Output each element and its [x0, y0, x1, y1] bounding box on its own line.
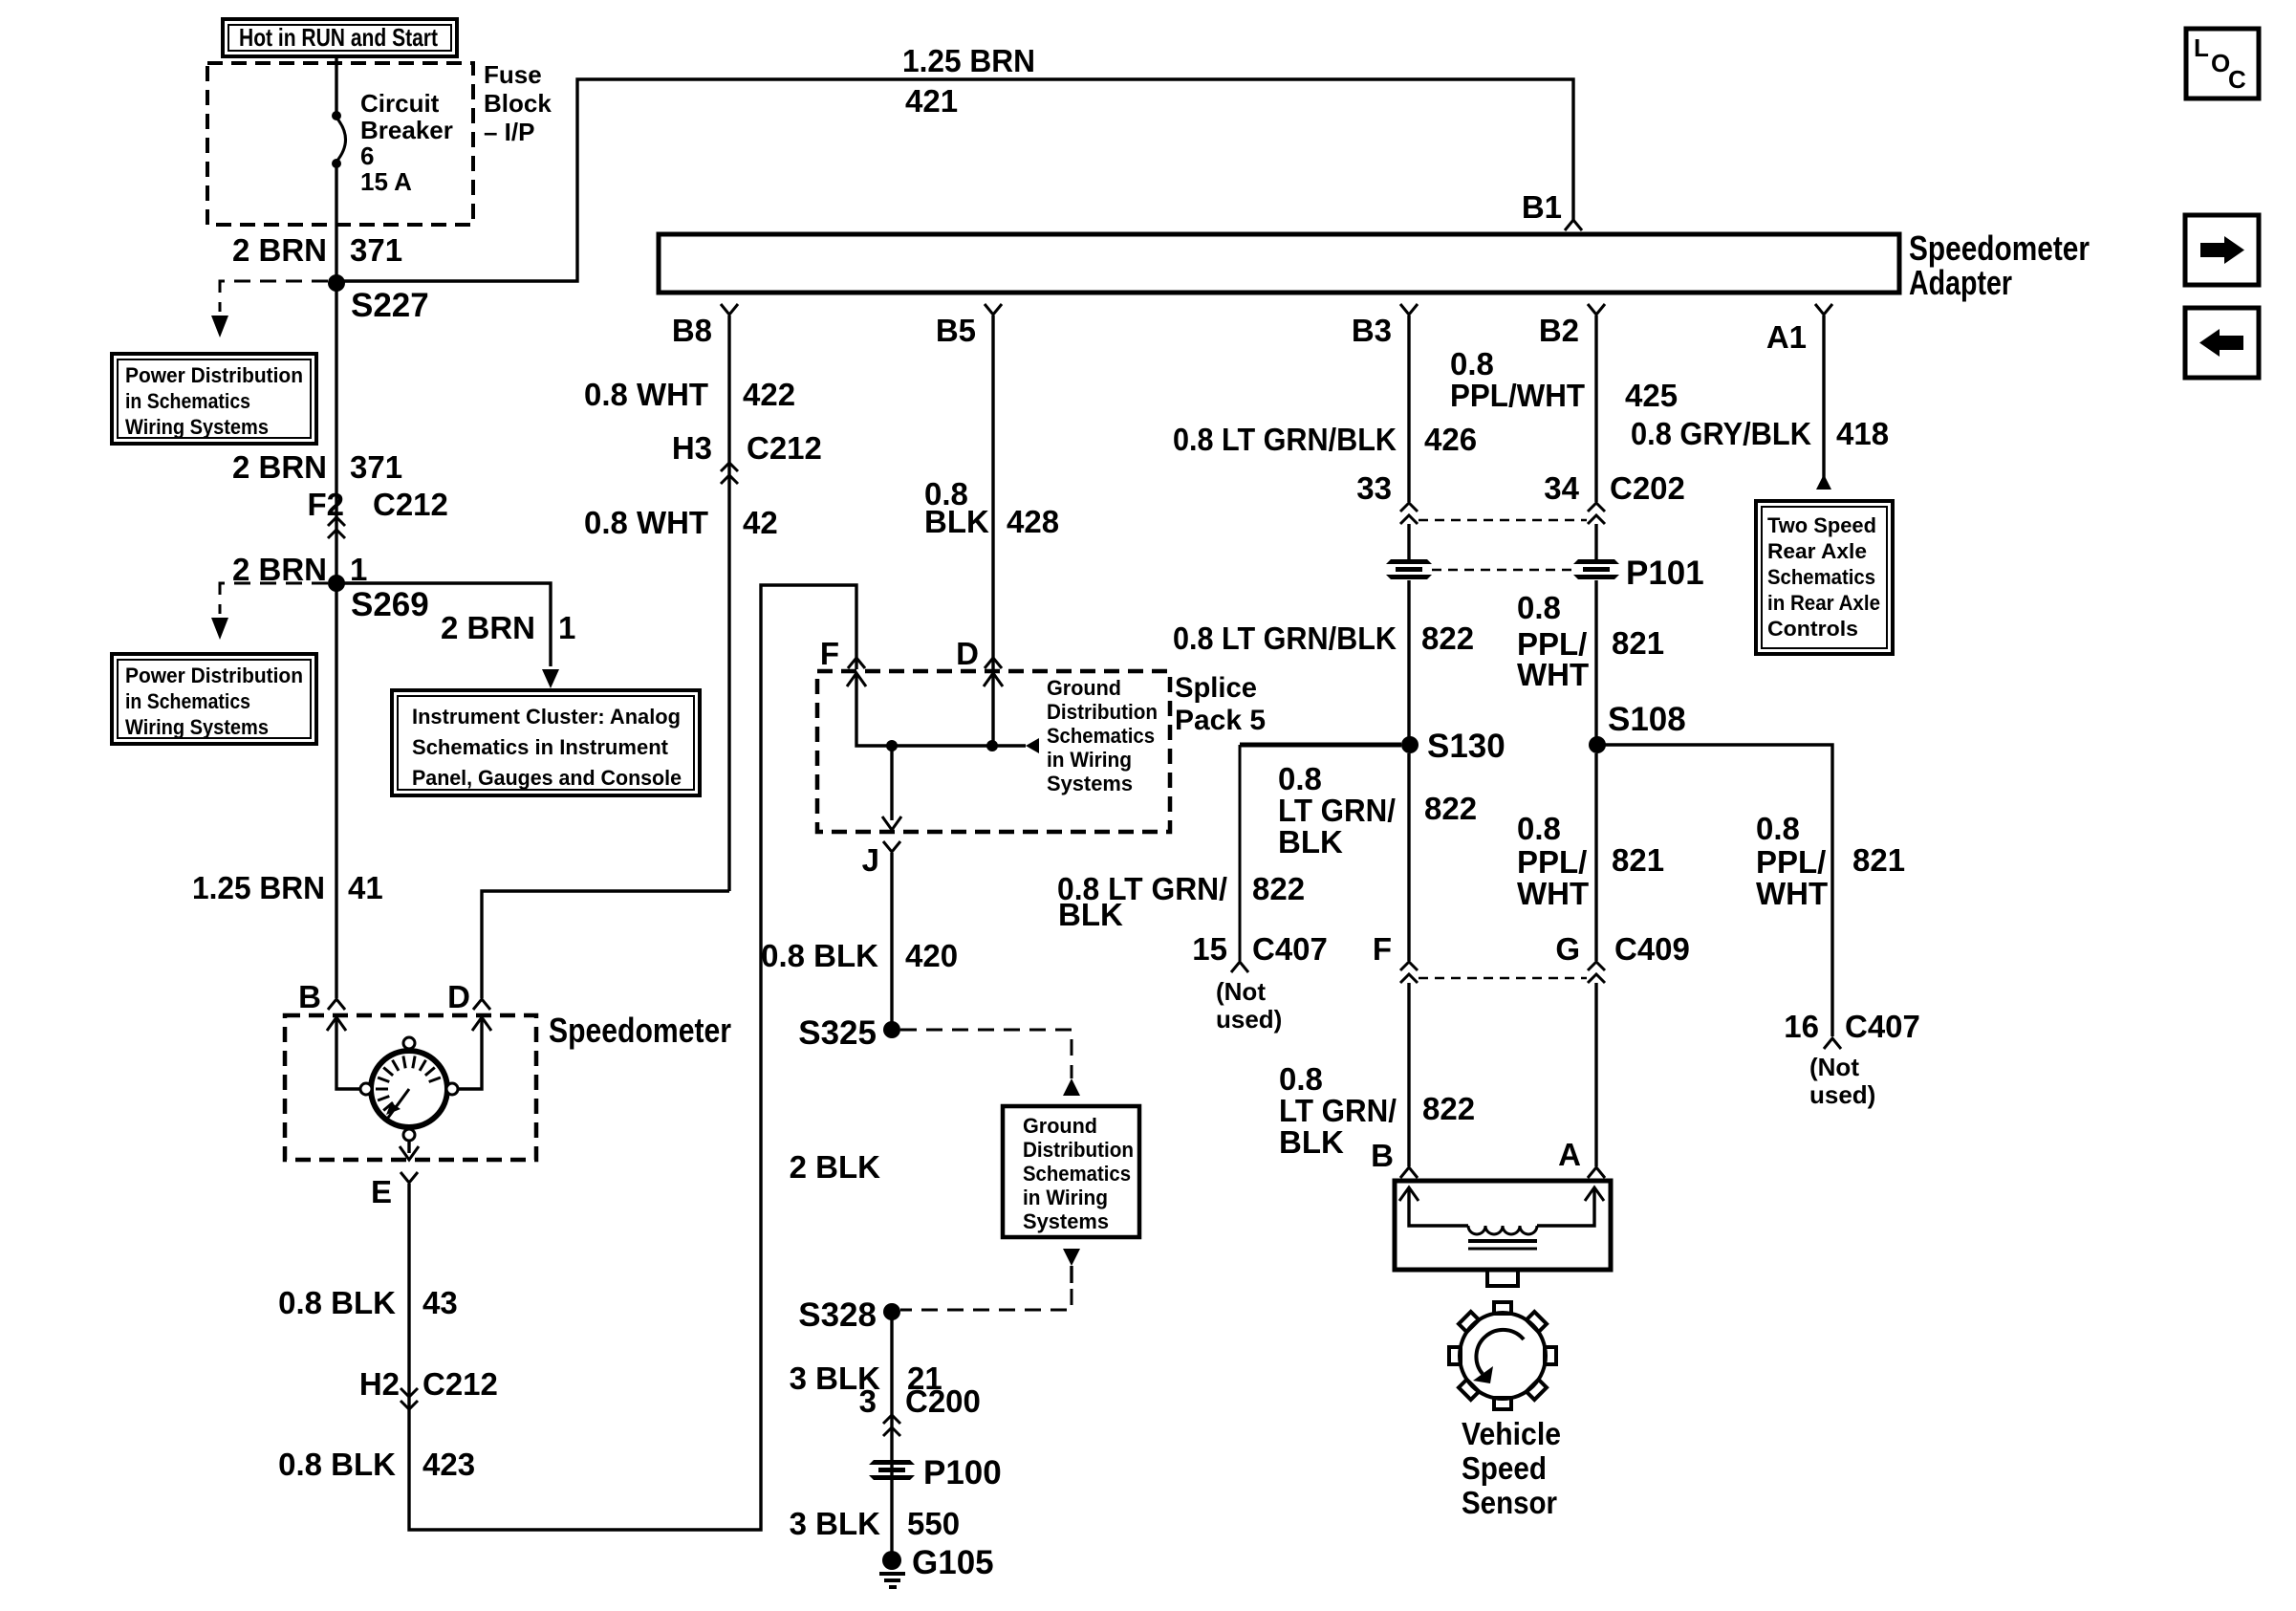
- svg-text:WHT: WHT: [1517, 657, 1589, 692]
- wire dashed C202 bridge: [1419, 519, 1587, 522]
- svg-text:D: D: [956, 636, 979, 671]
- wire dashed S227 to power distribution reference: [220, 281, 328, 312]
- svg-text:S227: S227: [351, 287, 429, 324]
- svg-text:3 BLK: 3 BLK: [790, 1506, 881, 1541]
- wire speedometer internal D: [472, 1017, 491, 1031]
- svg-text:428: 428: [1007, 504, 1059, 539]
- wire C202 to P101 right: [1594, 524, 1597, 560]
- svg-text:Sensor: Sensor: [1462, 1485, 1557, 1520]
- VSS mounting tab: [1487, 1270, 1518, 1286]
- svg-text:C407: C407: [1252, 931, 1328, 967]
- svg-text:– I/P: – I/P: [484, 118, 534, 146]
- svg-text:A: A: [1558, 1137, 1581, 1172]
- svg-text:15: 15: [1192, 931, 1227, 967]
- svg-text:822: 822: [1422, 1091, 1475, 1126]
- svg-text:821: 821: [1612, 625, 1664, 661]
- svg-text:B3: B3: [1352, 313, 1392, 348]
- svg-text:Power Distribution: Power Distribution: [125, 363, 303, 387]
- svg-text:Rear Axle: Rear Axle: [1767, 539, 1867, 563]
- svg-text:371: 371: [350, 232, 402, 268]
- svg-text:C202: C202: [1610, 470, 1685, 506]
- wire dashed ground distribution to S328: [1063, 1249, 1080, 1266]
- node Two Speed Rear Axle reference box: [1756, 501, 1893, 654]
- svg-text:0.8: 0.8: [1279, 1061, 1323, 1097]
- wire P101 to S130: [1407, 580, 1410, 746]
- wire J ground 420: [890, 853, 893, 1030]
- node B terminal speedometer: [328, 999, 345, 1010]
- wire hot feed into circuit breaker: [335, 56, 337, 115]
- node Ground Distribution reference box 2: [1003, 1106, 1139, 1237]
- svg-text:3: 3: [859, 1383, 877, 1419]
- wire splice to ground distribution reference arrow: [992, 744, 1026, 747]
- svg-text:0.8 GRY/BLK: 0.8 GRY/BLK: [1631, 416, 1811, 451]
- svg-text:B8: B8: [672, 313, 712, 348]
- svg-text:WHT: WHT: [1756, 876, 1828, 911]
- svg-text:Controls: Controls: [1767, 617, 1858, 641]
- svg-text:D: D: [447, 979, 470, 1014]
- svg-text:LT GRN/: LT GRN/: [1279, 1093, 1397, 1128]
- splice S328: [883, 1303, 900, 1320]
- svg-text:PPL/: PPL/: [1517, 844, 1587, 880]
- svg-text:0.8 WHT: 0.8 WHT: [584, 505, 708, 540]
- svg-text:S328: S328: [798, 1296, 877, 1334]
- coil core lines: [1468, 1239, 1537, 1243]
- fuse block dashed box: [207, 63, 473, 225]
- svg-text:0.8 LT GRN/BLK: 0.8 LT GRN/BLK: [1173, 620, 1397, 656]
- svg-text:L: L: [2194, 33, 2209, 62]
- inline connector P101 right: [1573, 559, 1619, 564]
- svg-text:Adapter: Adapter: [1909, 263, 2012, 302]
- svg-text:822: 822: [1424, 791, 1477, 826]
- svg-text:in Rear Axle: in Rear Axle: [1767, 591, 1880, 615]
- svg-text:E: E: [371, 1174, 392, 1209]
- svg-text:Ground: Ground: [1047, 676, 1121, 700]
- svg-text:Speed: Speed: [1462, 1450, 1547, 1486]
- wire S108 branch to 16 C407: [1597, 745, 1832, 1036]
- svg-text:in Schematics: in Schematics: [125, 389, 250, 413]
- svg-text:Fuse: Fuse: [484, 60, 542, 89]
- svg-text:Speedometer: Speedometer: [549, 1011, 731, 1050]
- svg-text:Systems: Systems: [1023, 1209, 1109, 1233]
- svg-text:B5: B5: [936, 313, 976, 348]
- node Power Distribution reference box 1: [112, 354, 316, 444]
- svg-text:BLK: BLK: [924, 504, 989, 539]
- svg-text:LT GRN/: LT GRN/: [1278, 793, 1396, 828]
- node D terminal splice pack: [985, 658, 1002, 668]
- svg-text:1.25 BRN: 1.25 BRN: [902, 43, 1035, 78]
- svg-text:426: 426: [1424, 422, 1477, 457]
- splice S325: [883, 1021, 900, 1038]
- svg-text:Power Distribution: Power Distribution: [125, 664, 303, 687]
- svg-text:S108: S108: [1608, 701, 1686, 738]
- splice S269: [328, 575, 345, 592]
- svg-text:423: 423: [422, 1447, 475, 1482]
- wire S108 to G: [1594, 753, 1597, 961]
- node Instrument Cluster reference box: [392, 690, 700, 795]
- wire S269 to speedometer B: [335, 583, 337, 998]
- svg-text:H3: H3: [672, 430, 712, 466]
- svg-text:822: 822: [1252, 871, 1305, 906]
- svg-text:0.8: 0.8: [1278, 761, 1322, 796]
- svg-text:(Not: (Not: [1809, 1053, 1859, 1081]
- gauge needle: [388, 1089, 409, 1118]
- svg-text:Ground: Ground: [1023, 1114, 1097, 1138]
- component Speedometer dashed box: [285, 1015, 536, 1160]
- wire G to VSS A: [1594, 983, 1597, 1166]
- svg-text:Hot in RUN and Start: Hot in RUN and Start: [239, 23, 438, 52]
- reference arrow into two speed box: [1816, 474, 1831, 490]
- svg-text:C212: C212: [373, 487, 448, 522]
- component Speedometer Adapter box: [659, 234, 1899, 293]
- svg-text:Instrument Cluster: Analog: Instrument Cluster: Analog: [412, 705, 681, 729]
- svg-text:Circuit: Circuit: [360, 89, 440, 118]
- node J terminal splice pack: [883, 841, 900, 852]
- svg-text:0.8 BLK: 0.8 BLK: [278, 1447, 396, 1482]
- wire dashed C409 bridge: [1419, 977, 1587, 980]
- wire dashed S269 to power distribution reference: [220, 583, 328, 614]
- svg-text:2 BLK: 2 BLK: [790, 1149, 881, 1185]
- svg-text:P101: P101: [1626, 555, 1704, 592]
- svg-text:0.8: 0.8: [1450, 346, 1494, 381]
- svg-text:in Wiring: in Wiring: [1047, 748, 1132, 772]
- wire B3 VSS signal 426: [1407, 316, 1410, 502]
- svg-text:PPL/: PPL/: [1756, 844, 1826, 880]
- wire S130 branch to 15 C407: [1240, 743, 1401, 748]
- svg-text:6: 6: [360, 142, 374, 170]
- wire B5 ground 428: [991, 316, 994, 669]
- wire speedometer internal E: [407, 1141, 410, 1153]
- svg-text:J: J: [862, 842, 879, 878]
- splice S108: [1589, 736, 1606, 753]
- junction splice dot left: [886, 740, 898, 751]
- svg-text:0.8: 0.8: [1756, 811, 1800, 846]
- svg-text:Speedometer: Speedometer: [1909, 229, 2090, 268]
- svg-text:BLK: BLK: [1279, 1124, 1344, 1160]
- svg-text:BLK: BLK: [1058, 897, 1123, 932]
- svg-text:Schematics in Instrument: Schematics in Instrument: [412, 735, 669, 759]
- svg-text:used): used): [1216, 1005, 1282, 1034]
- component Vehicle Speed Sensor box: [1395, 1181, 1611, 1270]
- svg-text:B: B: [298, 979, 321, 1014]
- svg-text:550: 550: [907, 1506, 960, 1541]
- svg-text:0.8: 0.8: [1517, 590, 1561, 625]
- svg-text:Wiring Systems: Wiring Systems: [125, 715, 269, 739]
- svg-text:G105: G105: [912, 1544, 994, 1581]
- svg-text:371: 371: [350, 449, 402, 485]
- svg-text:B2: B2: [1539, 313, 1579, 348]
- svg-text:Two Speed: Two Speed: [1767, 513, 1876, 537]
- svg-text:WHT: WHT: [1517, 876, 1589, 911]
- svg-text:0.8 BLK: 0.8 BLK: [278, 1285, 396, 1320]
- node D terminal speedometer: [473, 999, 490, 1010]
- legend LOC box: [2186, 29, 2259, 98]
- wire P101 to S108: [1594, 580, 1597, 746]
- svg-text:Block: Block: [484, 89, 552, 118]
- svg-text:F: F: [820, 636, 839, 671]
- svg-text:0.8: 0.8: [1517, 811, 1561, 846]
- svg-text:0.8 WHT: 0.8 WHT: [584, 377, 708, 412]
- node A1 terminal: [1815, 304, 1832, 315]
- svg-text:B: B: [1371, 1138, 1394, 1173]
- wire splice pack internal F: [847, 673, 866, 686]
- gauge speedometer dial: [371, 1051, 447, 1127]
- svg-text:41: 41: [348, 870, 383, 905]
- inline connector P100: [869, 1460, 915, 1465]
- svg-text:0.8 BLK: 0.8 BLK: [761, 938, 878, 973]
- svg-text:42: 42: [743, 505, 778, 540]
- wire A1 two speed rear axle 418: [1822, 316, 1825, 479]
- svg-text:S325: S325: [798, 1014, 877, 1052]
- svg-text:Schematics: Schematics: [1767, 565, 1875, 589]
- gear rotation arrow: [1476, 1330, 1524, 1374]
- legend right arrow box: [2185, 215, 2259, 285]
- wire dashed S325 to ground distribution reference: [900, 1030, 1072, 1078]
- svg-text:Schematics: Schematics: [1047, 724, 1155, 748]
- svg-text:S130: S130: [1427, 728, 1505, 765]
- svg-text:420: 420: [905, 938, 958, 973]
- svg-text:34: 34: [1544, 470, 1579, 506]
- svg-text:15 A: 15 A: [360, 167, 412, 196]
- wire dashed P101 bridge: [1432, 569, 1572, 572]
- wire S130 to F: [1407, 753, 1410, 961]
- wire S328 to G105: [890, 1312, 893, 1560]
- legend left arrow box: [2185, 308, 2259, 378]
- svg-text:C200: C200: [905, 1383, 981, 1419]
- svg-text:Schematics: Schematics: [1023, 1162, 1131, 1186]
- wire splice pack internal D: [984, 673, 1003, 686]
- gear tone wheel: [1460, 1313, 1546, 1399]
- svg-text:Breaker: Breaker: [360, 116, 453, 144]
- node A terminal VSS: [1588, 1167, 1605, 1178]
- svg-text:2 BRN: 2 BRN: [232, 449, 327, 485]
- circuit breaker CB6 15A: [332, 111, 341, 120]
- wire S227 to S269: [335, 283, 337, 583]
- svg-text:822: 822: [1421, 620, 1474, 656]
- svg-text:C409: C409: [1614, 931, 1690, 967]
- node B1 terminal: [1565, 220, 1582, 230]
- svg-text:1: 1: [558, 610, 575, 645]
- node E terminal speedometer: [401, 1172, 418, 1183]
- splice S130: [1401, 736, 1419, 753]
- wire circuit breaker to S227: [335, 163, 337, 283]
- svg-text:0.8 LT GRN/BLK: 0.8 LT GRN/BLK: [1173, 422, 1397, 457]
- svg-text:Pack 5: Pack 5: [1175, 705, 1266, 736]
- svg-text:421: 421: [905, 83, 958, 119]
- svg-text:used): used): [1809, 1080, 1875, 1109]
- svg-text:C: C: [2228, 65, 2246, 94]
- wire VSS internal coil: [1399, 1187, 1419, 1201]
- node B3 terminal: [1400, 304, 1418, 315]
- component Splice Pack 5 dashed box: [817, 671, 1170, 832]
- svg-text:F: F: [1373, 931, 1392, 967]
- svg-text:418: 418: [1836, 416, 1889, 451]
- wire S269 to instrument cluster: [336, 583, 551, 666]
- wire B2 VSS signal 425: [1594, 316, 1597, 502]
- svg-text:PPL/WHT: PPL/WHT: [1450, 378, 1585, 413]
- svg-text:H2: H2: [359, 1366, 400, 1402]
- node B terminal VSS: [1400, 1167, 1418, 1178]
- svg-text:2 BRN: 2 BRN: [232, 232, 327, 268]
- wire speedometer internal B: [327, 1017, 346, 1031]
- svg-text:(Not: (Not: [1216, 977, 1266, 1006]
- node F terminal splice pack: [848, 658, 865, 668]
- svg-text:C212: C212: [422, 1366, 498, 1402]
- svg-text:C407: C407: [1845, 1009, 1920, 1044]
- svg-text:G: G: [1555, 931, 1580, 967]
- inline connector P101 left: [1386, 559, 1432, 564]
- wire E ground return 43: [409, 585, 856, 1530]
- node Hot in RUN and Start: [223, 19, 457, 56]
- svg-text:Distribution: Distribution: [1047, 700, 1158, 724]
- node B5 terminal: [985, 304, 1002, 315]
- svg-text:Splice: Splice: [1175, 672, 1257, 704]
- ground G105: [882, 1551, 901, 1570]
- splice S227: [328, 274, 345, 292]
- svg-text:Distribution: Distribution: [1023, 1138, 1134, 1162]
- wire splice pack internal J: [890, 746, 893, 820]
- svg-text:2 BRN: 2 BRN: [232, 552, 327, 587]
- svg-text:in Schematics: in Schematics: [125, 689, 250, 713]
- wire S227 to fuse block feed riser: [336, 79, 1573, 281]
- svg-text:Vehicle: Vehicle: [1462, 1416, 1561, 1451]
- svg-text:BLK: BLK: [1278, 824, 1343, 860]
- svg-text:A1: A1: [1766, 319, 1807, 355]
- wire F to VSS B: [1407, 983, 1410, 1166]
- wire C202 to P101 left: [1407, 524, 1410, 560]
- wire B8 speedometer feed 422: [727, 316, 730, 891]
- junction splice dot right: [986, 740, 998, 751]
- svg-text:16: 16: [1784, 1009, 1819, 1044]
- svg-text:821: 821: [1612, 842, 1664, 878]
- svg-text:422: 422: [743, 377, 795, 412]
- svg-text:S269: S269: [351, 586, 429, 623]
- wire 42 to speedometer D: [482, 891, 729, 998]
- svg-text:C212: C212: [747, 430, 822, 466]
- svg-text:1.25 BRN: 1.25 BRN: [192, 870, 325, 905]
- svg-text:Panel, Gauges and Console: Panel, Gauges and Console: [412, 766, 682, 790]
- svg-text:Wiring Systems: Wiring Systems: [125, 415, 269, 439]
- node B8 terminal: [721, 304, 738, 315]
- svg-text:821: 821: [1852, 842, 1905, 878]
- svg-text:2 BRN: 2 BRN: [441, 610, 535, 645]
- svg-text:in Wiring: in Wiring: [1023, 1186, 1108, 1209]
- svg-text:P100: P100: [923, 1454, 1002, 1491]
- svg-text:43: 43: [422, 1285, 458, 1320]
- node Power Distribution reference box 2: [112, 654, 316, 744]
- svg-text:425: 425: [1625, 378, 1678, 413]
- svg-text:33: 33: [1356, 470, 1392, 506]
- svg-text:F2: F2: [307, 487, 344, 522]
- svg-text:B1: B1: [1522, 189, 1562, 225]
- node B2 terminal: [1588, 304, 1605, 315]
- svg-text:Systems: Systems: [1047, 772, 1133, 795]
